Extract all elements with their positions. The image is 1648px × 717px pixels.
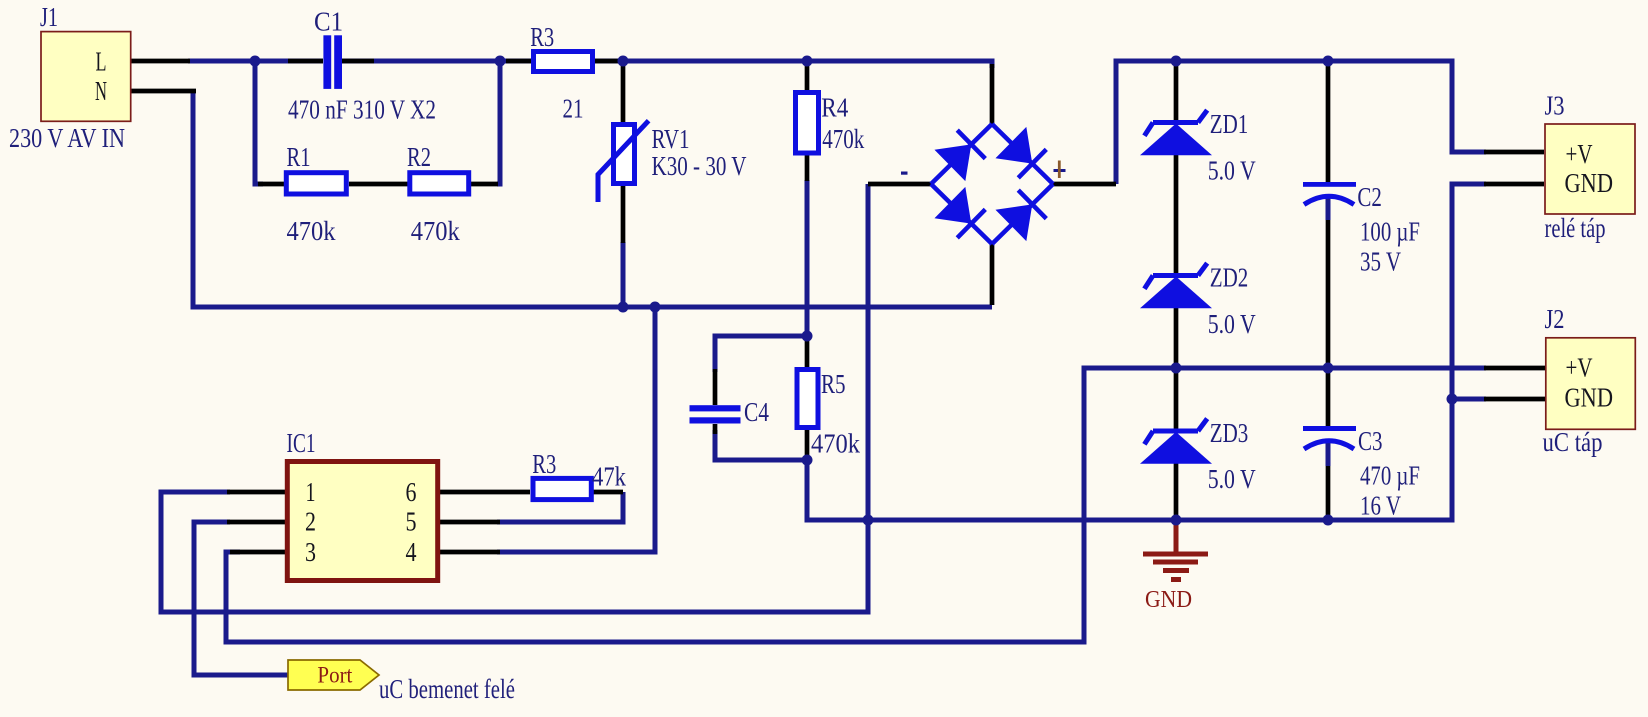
pin R4 bottom — [805, 155, 810, 181]
svg-text:uC táp: uC táp — [1543, 427, 1603, 457]
resistor R5 body — [797, 370, 818, 428]
svg-text:+V: +V — [1566, 353, 1593, 383]
svg-text:IC1: IC1 — [287, 428, 316, 458]
pin bridge AC bottom — [990, 244, 995, 305]
pin C1 left — [288, 59, 323, 64]
svg-text:470k: 470k — [822, 124, 864, 154]
pin R2 right — [470, 182, 498, 187]
svg-text:J2: J2 — [1545, 304, 1565, 334]
svg-text:3: 3 — [305, 537, 316, 567]
svg-text:R3: R3 — [530, 22, 554, 52]
resistor R3 body (21 ohm) — [534, 52, 593, 72]
svg-text:C2: C2 — [1357, 182, 1382, 212]
svg-text:16 V: 16 V — [1360, 491, 1401, 521]
pin C3 bottom — [1326, 466, 1331, 517]
pin C2 bottom — [1326, 220, 1331, 366]
pin R4 top — [805, 63, 810, 90]
svg-text:470k: 470k — [287, 216, 336, 246]
svg-text:5.0 V: 5.0 V — [1208, 156, 1256, 186]
svg-text:L: L — [96, 47, 107, 77]
svg-text:R4: R4 — [821, 93, 848, 123]
pin RV1 top — [621, 63, 626, 122]
svg-text:ZD2: ZD2 — [1210, 263, 1249, 293]
pin J2 GND stub — [1484, 397, 1545, 402]
svg-text:uC bemenet felé: uC bemenet felé — [379, 674, 515, 704]
svg-text:5.0 V: 5.0 V — [1208, 309, 1256, 339]
svg-text:R3: R3 — [532, 449, 556, 479]
svg-text:C3: C3 — [1358, 426, 1383, 456]
pin ZD1-ZD2 link — [1174, 155, 1179, 273]
svg-text:21: 21 — [563, 94, 584, 124]
svg-text:J1: J1 — [40, 2, 58, 32]
pin IC1.2 stub — [227, 520, 285, 525]
pin R5 top — [805, 340, 810, 367]
pin R3 right — [595, 59, 619, 64]
junction GND riser at J2 GND — [1447, 394, 1458, 405]
resistor R4 body — [796, 93, 819, 154]
zener diode ZD1 — [1140, 110, 1212, 155]
wire IC1 pin4 up to N rail — [497, 307, 655, 552]
pin C2 top — [1326, 63, 1331, 182]
svg-text:K30 - 30 V: K30 - 30 V — [652, 151, 747, 181]
bridge rectifier diode D-bottomright — [977, 168, 1069, 259]
resistor R1 body — [286, 173, 346, 194]
capacitor C4 plates — [690, 405, 741, 423]
junction top rail at R4 — [802, 56, 813, 67]
junction node R4/R5/C4 top — [802, 331, 813, 342]
PINS-LAYER — [131, 61, 1545, 552]
pin IC1.5 stub — [440, 520, 500, 525]
IC U1 (IC1) body — [287, 462, 437, 581]
svg-text:5.0 V: 5.0 V — [1208, 464, 1256, 494]
svg-text:5: 5 — [406, 507, 417, 537]
junction N rail at IC1 pin4 riser — [650, 302, 661, 313]
capacitor C2 (polarized) — [1303, 182, 1356, 205]
connector J2 body — [1546, 338, 1636, 430]
pin J3 GND stub — [1484, 182, 1544, 187]
wire IC1 pin2 to Port — [194, 522, 290, 675]
junction 5V rail at C3 top — [1323, 363, 1334, 374]
port flag Port — [288, 660, 379, 690]
bridge rectifier diode D-topright — [977, 108, 1069, 199]
wire GND net: R5 bottom to GND rail, up to J3 GND — [807, 184, 1486, 520]
svg-text:230 V AV IN: 230 V AV IN — [9, 123, 125, 153]
wire N net: J1.N down and across to bridge bottom — [193, 91, 992, 307]
svg-text:R1: R1 — [287, 142, 311, 172]
bridge rectifier diode D-topleft — [916, 108, 1008, 199]
pin R1-R2 link — [349, 182, 408, 187]
pin R1 left — [258, 182, 285, 187]
WIRES-LAYER — [161, 58, 1486, 675]
svg-text:Port: Port — [317, 663, 353, 688]
svg-text:470 nF 310 V X2: 470 nF 310 V X2 — [288, 95, 436, 125]
wire V+ net: bridge plus up, top right rail, down to J3 +V — [1116, 61, 1486, 184]
pin bridge plus — [1053, 182, 1116, 187]
pin IC1.4 stub — [440, 550, 500, 555]
wire C2 lower stub — [1326, 197, 1331, 220]
junction 5V rail at ZD2/ZD3 — [1171, 363, 1182, 374]
pin J1.N stub — [131, 89, 196, 94]
pin ZD3 cathode — [1174, 370, 1179, 429]
wire C4 branch top — [715, 336, 810, 372]
svg-text:4: 4 — [406, 537, 417, 567]
svg-text:C1: C1 — [314, 7, 343, 37]
svg-text:6: 6 — [406, 477, 417, 507]
wire 5V net: J2 +V rail left, down and along bottom to IC1 pin3 — [226, 368, 1486, 642]
DOTS-LAYER — [250, 56, 1458, 526]
pin ZD2 anode — [1174, 308, 1179, 366]
svg-text:N: N — [95, 76, 107, 106]
wire R4 bottom to R5/C4 node — [805, 180, 810, 336]
svg-text:47k: 47k — [592, 462, 626, 492]
junction top rail at C1 left — [250, 56, 261, 67]
svg-text:470 µF: 470 µF — [1360, 461, 1420, 491]
resistor R2 body — [410, 173, 469, 194]
svg-text:C4: C4 — [744, 397, 769, 427]
pin J2 +V stub — [1484, 366, 1545, 371]
pin R3 47k right — [593, 490, 623, 495]
svg-text:relé táp: relé táp — [1545, 213, 1606, 243]
wire C4 branch bottom — [715, 430, 807, 460]
capacitor C1 plates — [323, 35, 342, 89]
svg-text:J3: J3 — [1545, 91, 1565, 121]
pin C4 bottom — [713, 424, 718, 434]
svg-text:1: 1 — [306, 477, 316, 507]
svg-text:GND: GND — [1565, 383, 1614, 413]
pin C3 top — [1326, 371, 1331, 426]
svg-text:100 µF: 100 µF — [1360, 217, 1420, 247]
junction top rail at ZD1 — [1171, 56, 1182, 67]
junction top rail at C2 — [1323, 56, 1334, 67]
svg-text:470k: 470k — [411, 216, 460, 246]
svg-text:GND: GND — [1565, 168, 1614, 198]
pin bridge AC top — [990, 64, 995, 124]
junction node R5/C4 bottom — [802, 455, 813, 466]
junction top rail at R2 branch — [495, 56, 506, 67]
pin R5 bottom — [805, 430, 810, 456]
wire GND net: stub to J2 GND — [1452, 397, 1486, 402]
junction GND rail at C3 bottom — [1323, 515, 1334, 526]
wire L net: J1.L to C1 left — [188, 59, 323, 64]
pin IC1.1 stub — [227, 490, 285, 495]
wire L net: R2 right up to top rail — [497, 58, 500, 184]
svg-text:470k: 470k — [811, 429, 860, 459]
connector J3 body — [1545, 124, 1635, 214]
pin RV1 bottom — [621, 186, 626, 243]
zener diode ZD2 — [1140, 263, 1212, 308]
svg-text:R2: R2 — [407, 142, 431, 172]
wire GND net: bridge minus down, along y612, up to IC1 pin1 — [161, 184, 868, 612]
pin C4 top — [713, 369, 718, 405]
svg-text:35 V: 35 V — [1360, 247, 1401, 277]
junction N rail at RV1 bottom — [618, 302, 629, 313]
wire IC1 pin6-R3-pin5 U-turn — [497, 492, 623, 522]
pin IC1.3 stub — [230, 550, 285, 555]
svg-text:R5: R5 — [821, 369, 846, 399]
pin J1.L stub — [131, 59, 190, 64]
zener diode ZD3 — [1140, 419, 1212, 464]
junction top rail at RV1 — [618, 56, 629, 67]
pin C1 right — [342, 59, 374, 64]
wire L net: branch down to R1 — [255, 58, 263, 184]
pin R3 left — [506, 59, 531, 64]
ground symbol GND — [1143, 520, 1208, 580]
pin bridge minus — [868, 182, 932, 187]
pin IC1.6 stub to R3 — [440, 490, 530, 495]
resistor R3 body (47k) — [533, 478, 591, 499]
capacitor C3 (polarized) — [1303, 426, 1356, 449]
junction GND rail at bridge minus riser — [863, 515, 874, 526]
svg-text:GND: GND — [1145, 587, 1192, 613]
junction GND rail at ZD3 anode — [1171, 515, 1182, 526]
pin ZD1 cathode — [1174, 63, 1179, 120]
svg-text:RV1: RV1 — [652, 124, 690, 154]
wire C3 lower stub — [1326, 441, 1331, 466]
bridge rectifier diode D-bottomleft — [916, 168, 1008, 259]
pin J3 +V stub — [1484, 150, 1544, 155]
svg-text:2: 2 — [305, 507, 316, 537]
svg-text:ZD1: ZD1 — [1210, 109, 1249, 139]
wire L net: C1 right across top to bridge top corner — [342, 61, 992, 68]
connector J1 body — [41, 32, 131, 122]
varistor RV1 — [598, 121, 649, 202]
label bridge plus — [1054, 161, 1066, 179]
label bridge minus — [901, 172, 908, 175]
pin ZD3 anode — [1174, 463, 1179, 518]
svg-text:ZD3: ZD3 — [1210, 418, 1249, 448]
wire RV1 bottom to N rail — [621, 242, 626, 307]
svg-text:+V: +V — [1566, 139, 1593, 169]
